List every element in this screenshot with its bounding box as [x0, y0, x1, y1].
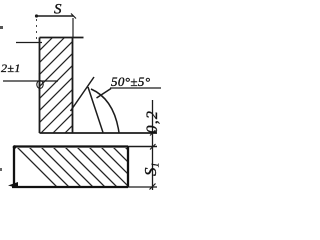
svg-text:S1: S1	[141, 163, 162, 177]
svg-text:0,2: 0,2	[144, 110, 161, 134]
svg-text:2±1: 2±1	[1, 61, 21, 75]
svg-text:S: S	[54, 2, 62, 18]
svg-text:50°±5°: 50°±5°	[111, 74, 150, 89]
